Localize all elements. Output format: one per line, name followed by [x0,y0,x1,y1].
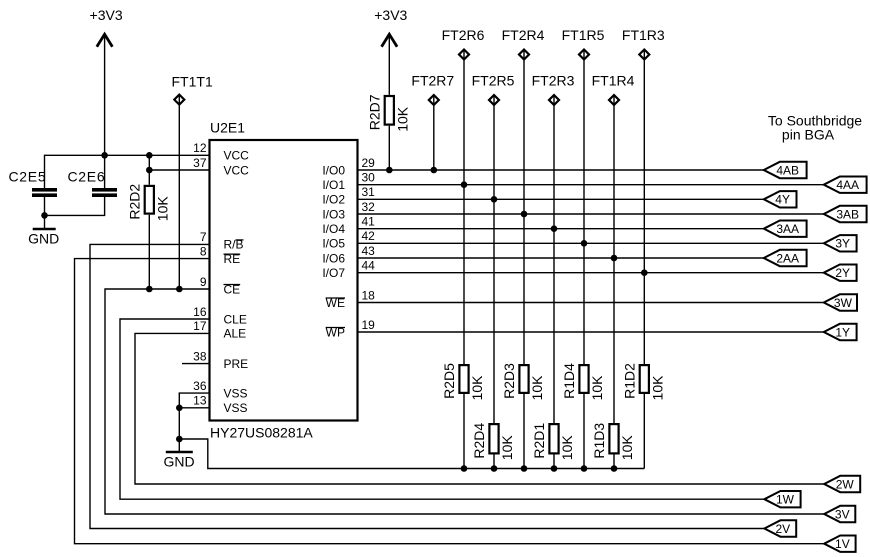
svg-text:41: 41 [362,215,376,229]
svg-text:44: 44 [362,259,376,273]
net flag 1W [764,491,800,507]
svg-text:I/O1: I/O1 [322,178,345,192]
svg-text:I/O7: I/O7 [322,266,345,280]
net flag 3AA [764,221,807,237]
wire net I/O0 row [358,169,764,171]
svg-text:18: 18 [362,288,376,302]
svg-text:2V: 2V [775,522,790,536]
svg-text:4AB: 4AB [776,163,799,177]
wire FT1R5 stem [583,50,585,365]
net flag 3V [824,506,855,522]
svg-text:R1D3: R1D3 [591,423,607,459]
wire net +3V3 B vertical [388,34,390,95]
svg-text:I/O5: I/O5 [322,237,345,251]
wire C2E6 top lead [104,155,106,188]
svg-text:R2D1: R2D1 [531,423,547,459]
IC U2E1 body [210,140,358,421]
pin 9 CE [200,275,240,297]
svg-text:R1D2: R1D2 [621,363,637,399]
net flag 1Y [824,324,857,340]
svg-text:10K: 10K [499,435,515,461]
svg-text:FT2R3: FT2R3 [532,73,575,89]
svg-text:10K: 10K [649,375,665,401]
net flag 3AB [824,206,867,222]
junction FT2R3 on row [551,225,558,232]
svg-text:I/O4: I/O4 [322,222,345,236]
wire R1D4 bottom lead [583,394,585,469]
svg-text:FT2R5: FT2R5 [472,73,515,89]
svg-text:10K: 10K [529,375,545,401]
pin 17 ALE [193,319,246,341]
wire R2D4 bottom lead [493,455,495,469]
svg-text:8: 8 [200,244,207,258]
junction VSS ground branch [176,436,183,443]
svg-text:VCC: VCC [224,149,250,163]
wire R1D3 bottom lead [613,455,615,469]
junction FT2R4 on row [521,211,528,218]
test point FT1T1 [172,74,213,105]
junction +3V3 on VCC rail [101,152,108,159]
svg-text:pin BGA: pin BGA [782,127,835,143]
svg-text:17: 17 [193,319,207,333]
wire FT2R4 stem [523,50,525,365]
svg-text:42: 42 [362,229,376,243]
test point FT2R5 [472,73,515,105]
wire net I/O6 row [358,257,764,259]
svg-text:3W: 3W [834,296,853,310]
wire net WP row [358,331,824,333]
resistor R1D4 [561,363,589,399]
svg-text:I/O0: I/O0 [322,163,345,177]
svg-text:FT1R5: FT1R5 [562,27,605,43]
wire R1D2 bottom lead [643,394,645,469]
pin 8 RE [200,244,240,266]
wire FT1T1 stem [178,95,180,289]
svg-text:+3V3: +3V3 [90,7,123,23]
wire pin 13 stub [179,407,209,409]
svg-text:10K: 10K [559,435,575,461]
power +3V3 (right rail) [374,7,407,47]
pin 43 I/O6 [322,244,375,265]
wire FT1R4 stem [613,95,615,423]
junction pin 13 on VSS drop [176,405,183,412]
test point FT1R5 [562,27,605,59]
junction R2D5 on ground bus [461,465,468,472]
svg-text:VSS: VSS [224,401,248,415]
svg-text:FT2R7: FT2R7 [411,73,454,89]
svg-text:10K: 10K [589,375,605,401]
svg-text:2W: 2W [836,477,855,491]
resistor R2D4 [471,423,499,459]
wire net +3V3 A vertical [104,34,106,155]
net flag 1V [824,536,855,552]
wire net ALE (pin 17 to 2W) [135,333,824,484]
junction R2D2 bottom on CE [146,286,153,293]
resistor R1D3 [591,423,619,459]
ground GND under IC [163,452,194,470]
junction R2D7 on I/O0 [386,167,393,174]
wire R2D7 bottom lead [388,126,390,170]
wire net VSS (pins 36/13 to ground) [179,393,209,451]
svg-text:2AA: 2AA [776,251,799,265]
junction R1D4 on ground bus [581,465,588,472]
resistor R2D7 [366,94,394,130]
pin 30 I/O1 [322,171,375,193]
junction FT1R3 on row [641,269,648,276]
svg-text:I/O6: I/O6 [322,251,345,265]
junction R2D4 on ground bus [491,465,498,472]
wire R2D5 bottom lead [463,394,465,469]
svg-text:10K: 10K [469,375,485,401]
junction R2D3 on ground bus [521,465,528,472]
capacitor C2E6 [68,168,118,197]
wire FT2R7 stem [433,95,435,170]
wire pin 38 PRE stub [182,363,210,365]
test point FT2R3 [532,73,575,105]
svg-text:10K: 10K [394,106,410,132]
svg-text:FT1R4: FT1R4 [592,73,635,89]
wire net I/O3 row [358,213,824,215]
svg-text:R2D7: R2D7 [366,94,382,130]
wire net I/O4 row [358,228,764,230]
wire net CLE (pin 16 to 1W) [120,319,764,499]
net flag 2Y [824,265,857,281]
svg-text:R2D3: R2D3 [501,363,517,399]
wire net I/O2 row [358,198,764,200]
pin 38 PRE [193,349,248,371]
svg-text:FT1T1: FT1T1 [172,74,213,90]
junction FT1R5 on row [581,240,588,247]
svg-text:VSS: VSS [224,386,248,400]
svg-text:43: 43 [362,244,376,258]
wire net CE (pin 9 to 3V) [105,289,824,514]
svg-text:31: 31 [362,185,376,199]
net flag 2W [824,476,860,492]
svg-text:C2E6: C2E6 [68,168,106,184]
junction R2D1 on ground bus [551,465,558,472]
svg-text:R2D2: R2D2 [126,184,142,220]
svg-text:FT1R3: FT1R3 [622,27,665,43]
wire R2D2 bottom lead [148,215,150,289]
junction R2D2 on pin 37 wire [146,167,153,174]
resistor R2D3 [501,363,529,399]
net flag 2AA [764,250,807,266]
net flag 3W [824,294,857,310]
svg-text:29: 29 [362,156,376,170]
resistor R2D5 [441,363,469,399]
ground GND near capacitors [28,229,59,247]
svg-text:4AA: 4AA [836,178,859,192]
test point FT2R6 [442,27,485,59]
svg-text:C2E5: C2E5 [9,168,47,184]
junction C2E5 bottom / GND stem [41,212,48,219]
pin 31 I/O2 [322,185,375,207]
svg-text:3Y: 3Y [835,237,850,251]
svg-text:CLE: CLE [224,312,247,326]
pin 41 I/O4 [322,215,375,237]
junction R1D3 on ground bus [611,465,618,472]
svg-text:PRE: PRE [224,357,249,371]
pin 32 I/O3 [322,200,375,222]
wire FT1R3 stem [643,50,645,365]
test point FT2R7 [411,73,454,105]
svg-text:FT2R6: FT2R6 [442,27,485,43]
pin 19 WP [326,318,376,340]
svg-text:U2E1: U2E1 [210,120,245,136]
test point FT1R4 [592,73,635,105]
svg-text:I/O2: I/O2 [322,193,345,207]
svg-text:12: 12 [193,141,207,155]
wire FT2R6 stem [463,50,465,365]
pin 16 CLE [193,305,247,327]
wire R2D2 top lead [148,155,150,185]
svg-text:13: 13 [193,394,207,408]
wire C2E5 bottom lead [44,197,46,215]
wire FT2R5 stem [493,95,495,423]
svg-text:16: 16 [193,305,207,319]
pin 29 I/O0 [322,156,375,178]
svg-text:2Y: 2Y [835,266,850,280]
pin 7 R/B [200,230,244,252]
svg-text:32: 32 [362,200,376,214]
svg-text:10K: 10K [154,196,170,222]
net flag 4Y [764,191,797,207]
svg-text:GND: GND [163,454,194,470]
net flag 4AA [824,177,867,193]
junction FT2R5 on row [491,196,498,203]
wire pin 37 stub [149,169,209,171]
junction FT2R6 on row [461,181,468,188]
svg-text:9: 9 [200,275,207,289]
svg-text:I/O3: I/O3 [322,207,345,221]
svg-text:R2D5: R2D5 [441,363,457,399]
pin 18 WE [326,288,376,310]
svg-text:1Y: 1Y [835,325,850,339]
resistor R2D1 [531,423,559,459]
junction FT2R7 on row [431,167,438,174]
svg-text:ALE: ALE [224,327,247,341]
wire net WE row [358,302,824,304]
svg-text:38: 38 [193,349,207,363]
wire net RE (pin 8 to 1V) [75,259,825,544]
junction FT1R4 on row [611,255,618,262]
resistor R2D2 [126,184,154,220]
wire net I/O5 row [358,242,824,244]
svg-text:R1D4: R1D4 [561,363,577,399]
svg-text:3AA: 3AA [776,222,799,236]
test point FT1R3 [622,27,665,59]
wire R2D1 bottom lead [553,455,555,469]
junction R2D2 top on VCC rail [146,152,153,159]
svg-text:3V: 3V [835,507,850,521]
svg-text:7: 7 [200,230,207,244]
pin 36 VSS [193,379,247,401]
svg-text:30: 30 [362,171,376,185]
pin 42 I/O5 [322,229,375,251]
wire R2D3 bottom lead [523,394,525,469]
pin 13 VSS [193,394,247,416]
pin 12 VCC [193,141,249,163]
net flag 4AB [764,162,807,178]
svg-text:1V: 1V [835,537,850,551]
svg-text:GND: GND [28,231,59,247]
svg-text:R2D4: R2D4 [471,423,487,459]
pin 37 VCC [193,156,249,178]
svg-text:36: 36 [193,379,207,393]
svg-text:+3V3: +3V3 [374,7,407,23]
wire cap bottoms to GND [45,197,105,229]
svg-text:VCC: VCC [224,163,250,177]
wire net I/O7 row [358,272,824,274]
capacitor C2E5 [9,168,58,197]
annotation: To Southbridge pin BGA [768,113,862,143]
svg-text:3AB: 3AB [836,207,859,221]
pin 44 I/O7 [322,259,375,281]
wire net VCC top rail (C2E5 to pin 12) [45,155,210,188]
wire net R/B (pin 7 to 2V) [90,244,764,528]
svg-text:19: 19 [362,318,376,332]
test point FT2R4 [502,27,545,59]
resistor R1D2 [621,363,649,399]
svg-text:10K: 10K [619,435,635,461]
net flag 2V [764,520,796,536]
wire FT2R3 stem [553,95,555,423]
svg-text:37: 37 [193,156,207,170]
net flag 3Y [824,235,857,251]
svg-text:4Y: 4Y [775,193,790,207]
svg-text:HY27US08281A: HY27US08281A [210,425,313,441]
svg-text:1W: 1W [776,493,795,507]
junction FT1T1 on CE [176,286,183,293]
power +3V3 (left rail) [90,7,123,47]
wire net I/O1 row [358,184,824,186]
svg-text:FT2R4: FT2R4 [502,27,545,43]
wire VSS branch to resistor ground bus [179,439,644,469]
